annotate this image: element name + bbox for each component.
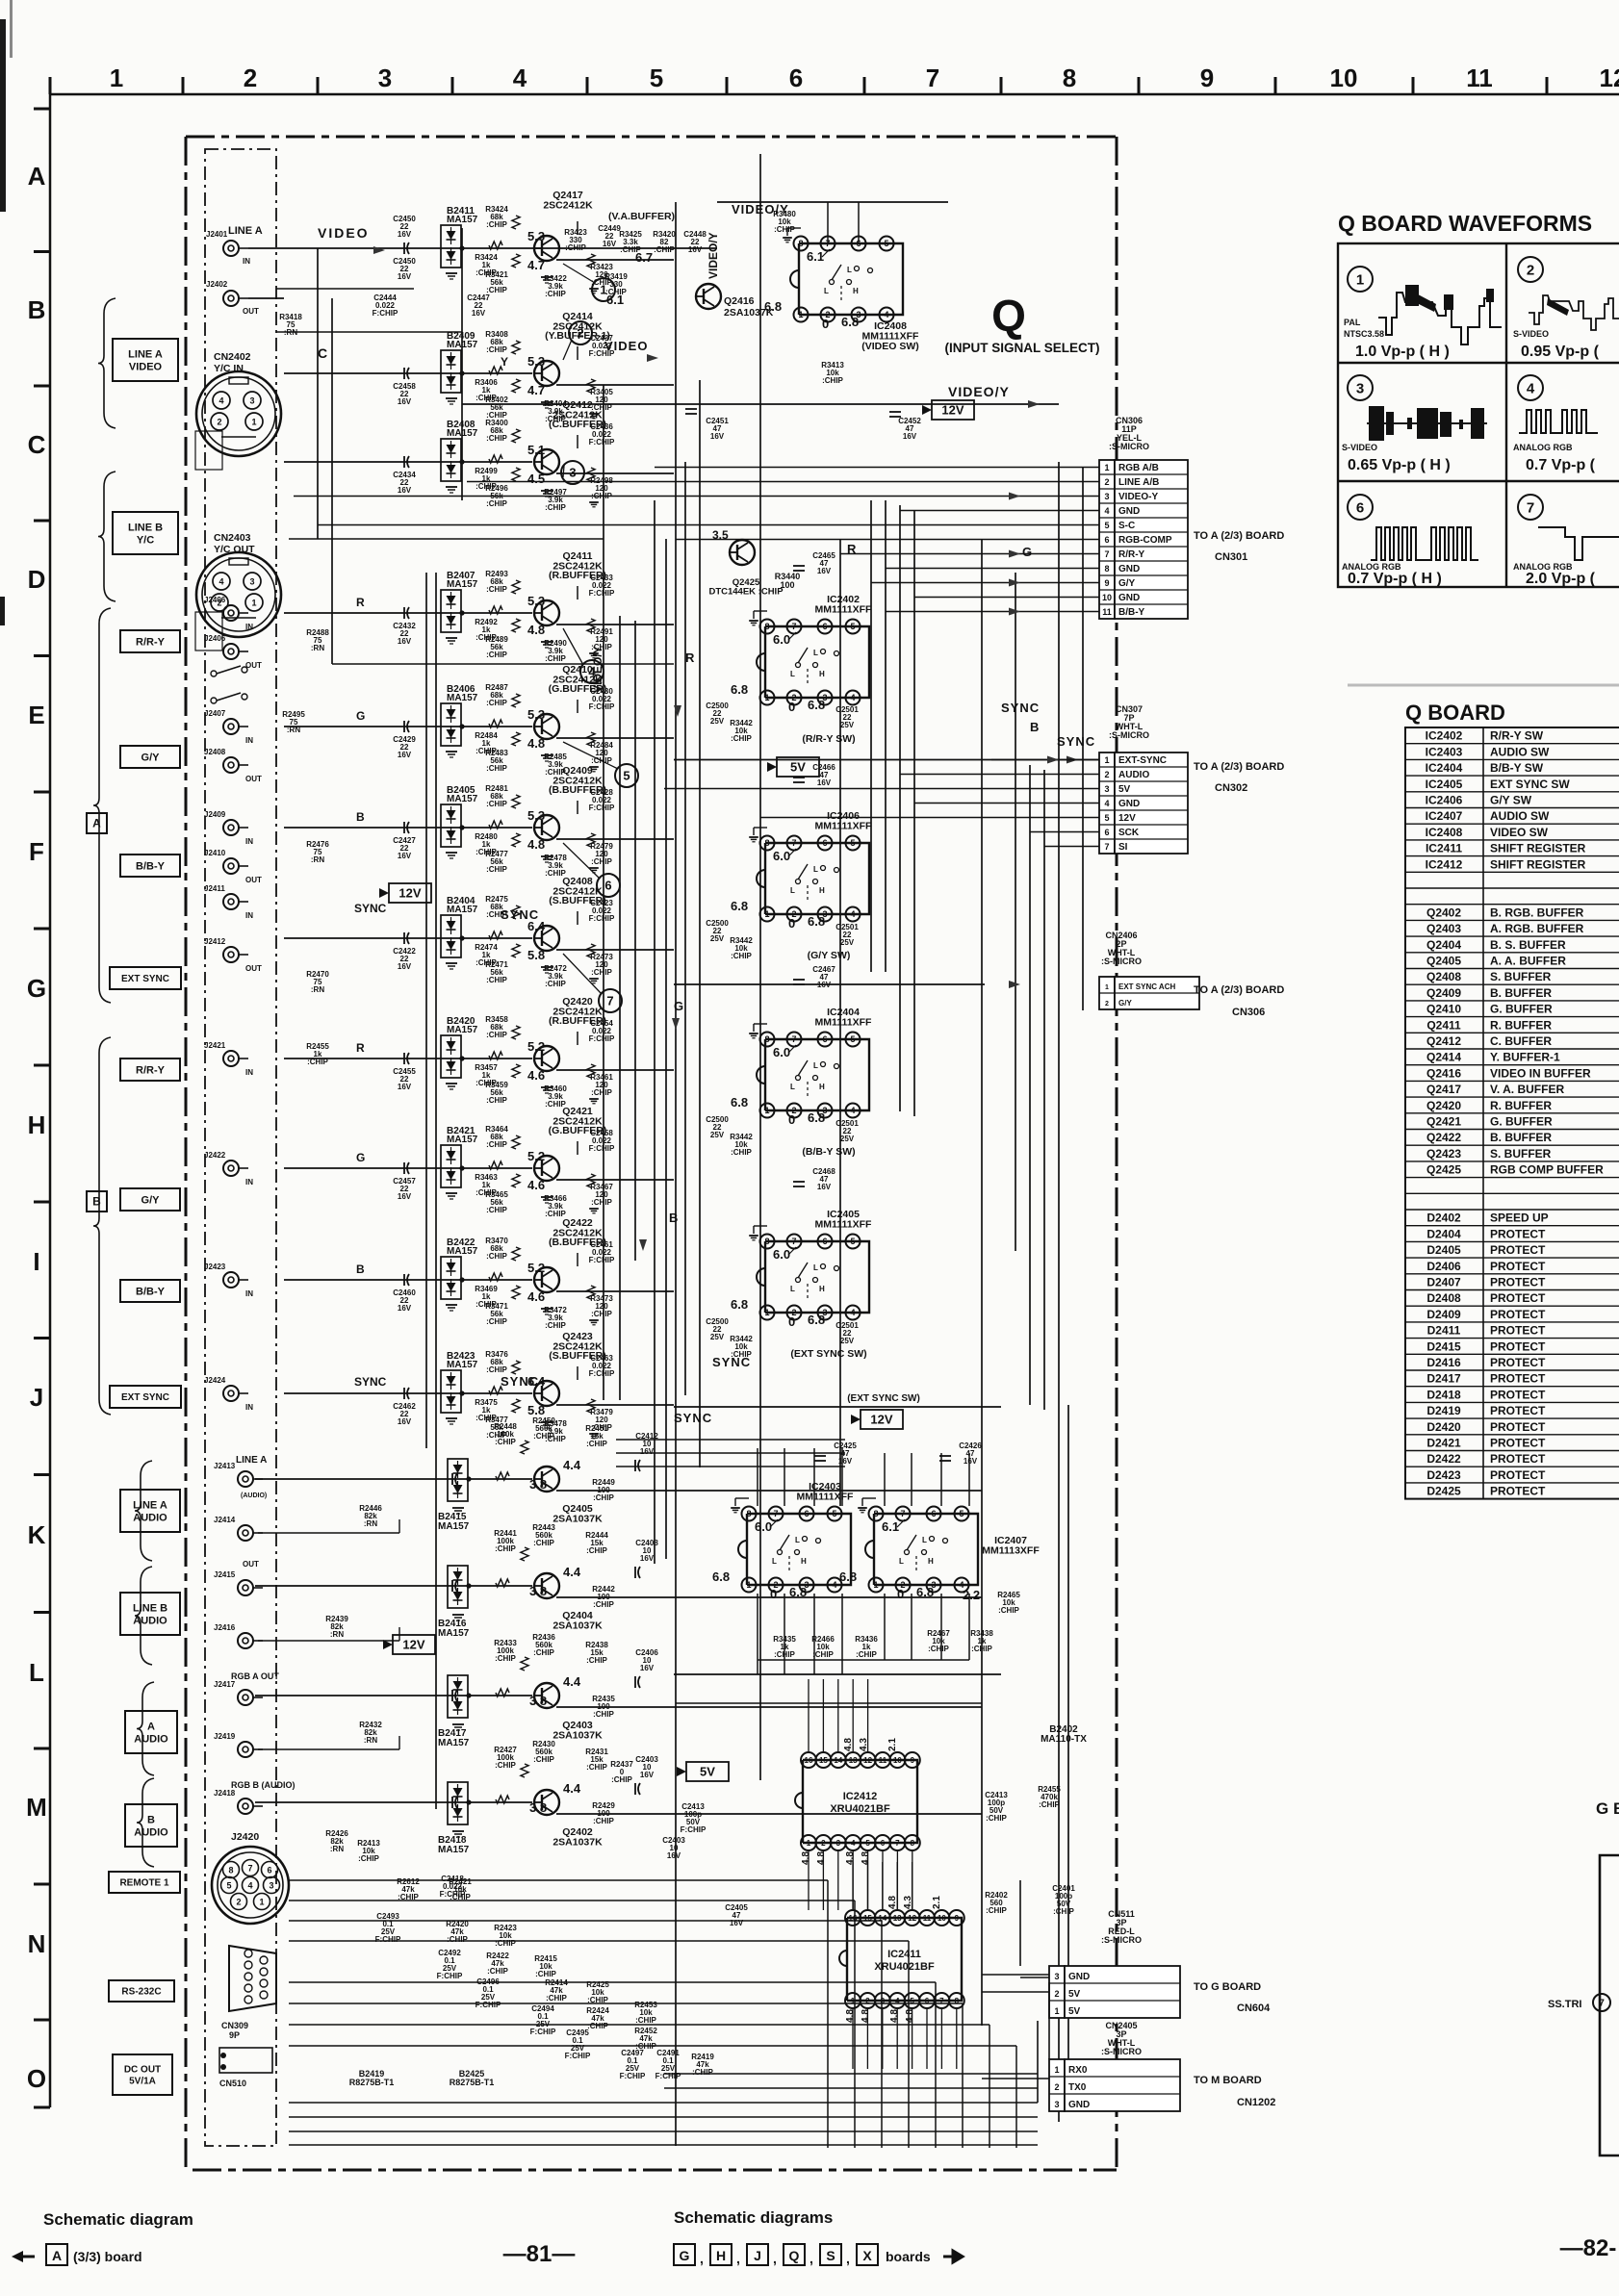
svg-text:GND: GND: [1118, 564, 1140, 574]
svg-text:VIDEO-Y: VIDEO-Y: [1118, 492, 1158, 502]
svg-text:8: 8: [1104, 564, 1109, 574]
svg-text:J2417: J2417: [214, 1680, 236, 1689]
svg-text:Q: Q: [789, 2248, 800, 2263]
svg-text:MA157: MA157: [447, 1025, 478, 1035]
svg-text:D2416: D2416: [1426, 1356, 1461, 1369]
svg-text:4.6: 4.6: [527, 1178, 545, 1192]
svg-text:7: 7: [791, 622, 796, 631]
svg-text:SYNC: SYNC: [354, 1375, 387, 1389]
svg-text:4: 4: [218, 396, 223, 406]
svg-text:CN301: CN301: [1215, 551, 1247, 563]
svg-text:25V: 25V: [840, 721, 855, 729]
svg-text:RX0: RX0: [1068, 2065, 1088, 2076]
svg-text:IC2403: IC2403: [1426, 745, 1463, 758]
svg-text:5.3: 5.3: [527, 229, 545, 243]
svg-text:MA157: MA157: [447, 579, 478, 590]
svg-text::CHIP: :CHIP: [545, 503, 566, 512]
svg-text:3.8: 3.8: [529, 1800, 547, 1815]
svg-text:A. RGB. BUFFER: A. RGB. BUFFER: [1490, 922, 1584, 935]
svg-text:2SA1037K: 2SA1037K: [553, 1620, 603, 1632]
svg-text:4.4: 4.4: [563, 1674, 581, 1689]
svg-text:B. RGB. BUFFER: B. RGB. BUFFER: [1490, 906, 1584, 919]
svg-text:,: ,: [809, 2251, 813, 2266]
svg-text:9: 9: [1104, 578, 1109, 588]
svg-text:NTSC3.58: NTSC3.58: [1344, 329, 1384, 339]
svg-text:4.3: 4.3: [903, 1896, 913, 1909]
svg-text:(3/3) board: (3/3) board: [73, 2249, 142, 2264]
svg-text:5: 5: [959, 1509, 964, 1518]
svg-text:5: 5: [884, 239, 888, 248]
svg-text:B/B-Y SW: B/B-Y SW: [1490, 761, 1544, 775]
svg-text:16V: 16V: [667, 1851, 681, 1860]
svg-text:R. BUFFER: R. BUFFER: [1490, 1018, 1552, 1032]
svg-text:J2406: J2406: [204, 634, 226, 643]
svg-text:IC2405: IC2405: [1426, 778, 1463, 791]
svg-text:L: L: [813, 1061, 818, 1070]
svg-text:—81—: —81—: [503, 2241, 576, 2267]
svg-text:OUT: OUT: [245, 775, 262, 783]
svg-text::CHIP: :CHIP: [986, 1906, 1007, 1915]
svg-text:F:CHIP: F:CHIP: [589, 1256, 615, 1264]
svg-text:A. A. BUFFER: A. A. BUFFER: [1490, 955, 1566, 968]
svg-text:G/Y: G/Y: [141, 752, 161, 763]
svg-text:SYNC: SYNC: [354, 902, 387, 915]
svg-text:MA157: MA157: [447, 905, 478, 915]
svg-text:8: 8: [1063, 64, 1076, 92]
svg-text::CHIP: :CHIP: [486, 499, 507, 508]
svg-text:D2402: D2402: [1426, 1212, 1461, 1225]
svg-text:16V: 16V: [398, 1417, 412, 1426]
svg-text:11: 11: [1466, 64, 1493, 92]
svg-text:CN1202: CN1202: [1237, 2097, 1275, 2108]
svg-text:R/R-Y: R/R-Y: [1118, 549, 1145, 560]
svg-text:MA157: MA157: [447, 693, 478, 703]
svg-text:5: 5: [1104, 521, 1109, 530]
svg-text::CHIP: :CHIP: [593, 1493, 614, 1502]
svg-text:2: 2: [1054, 1989, 1059, 1999]
svg-text:MA157: MA157: [447, 340, 478, 350]
svg-text::CHIP: :CHIP: [495, 1654, 516, 1663]
svg-text:(B/B-Y SW): (B/B-Y SW): [802, 1146, 855, 1158]
svg-text:(V.A.BUFFER): (V.A.BUFFER): [608, 211, 675, 222]
svg-text:OUT: OUT: [245, 876, 262, 884]
svg-text:B: B: [147, 1814, 155, 1825]
svg-text:R: R: [356, 596, 365, 609]
svg-text:7: 7: [895, 1839, 900, 1848]
svg-text:5V: 5V: [1068, 1989, 1081, 2000]
svg-text:D2420: D2420: [1426, 1420, 1461, 1434]
svg-text:B/B-Y: B/B-Y: [136, 860, 166, 872]
svg-text::CHIP: :CHIP: [774, 225, 795, 234]
svg-text:TO A (2/3) BOARD: TO A (2/3) BOARD: [1194, 761, 1284, 773]
svg-text:0: 0: [770, 1587, 777, 1601]
svg-text:1: 1: [110, 64, 123, 92]
svg-text:6.0: 6.0: [773, 632, 790, 647]
svg-text:6: 6: [789, 64, 803, 92]
svg-text:8: 8: [798, 239, 803, 248]
svg-text:5: 5: [623, 769, 630, 783]
svg-text:11: 11: [879, 1756, 887, 1765]
svg-text:16V: 16V: [398, 397, 412, 406]
svg-text:B: B: [356, 1263, 365, 1276]
svg-text:3: 3: [569, 466, 576, 480]
svg-text:6.0: 6.0: [773, 849, 790, 863]
svg-text:4.8: 4.8: [905, 2009, 915, 2023]
svg-text:2SA1037K: 2SA1037K: [553, 1514, 603, 1525]
svg-text:F:CHIP: F:CHIP: [475, 2001, 501, 2009]
svg-text:J2415: J2415: [214, 1570, 236, 1579]
svg-text:6.1: 6.1: [606, 293, 624, 307]
svg-text:S. BUFFER: S. BUFFER: [1490, 1147, 1552, 1161]
svg-text:Q2414: Q2414: [1426, 1051, 1461, 1064]
svg-text::CHIP: :CHIP: [486, 220, 507, 229]
svg-text:A: A: [28, 162, 46, 191]
svg-text:IN: IN: [245, 1403, 253, 1412]
svg-text:11: 11: [923, 1914, 932, 1923]
svg-text:D2425: D2425: [1426, 1485, 1461, 1498]
svg-text:2.1: 2.1: [887, 1738, 898, 1751]
svg-text:2: 2: [1104, 770, 1109, 779]
svg-text:G: G: [27, 974, 46, 1003]
svg-text:IN: IN: [245, 911, 253, 920]
svg-text:6.8: 6.8: [731, 1095, 748, 1110]
svg-text:LINE A: LINE A: [228, 225, 263, 237]
svg-text:SYNC: SYNC: [1001, 701, 1040, 715]
svg-text:G/Y: G/Y: [1118, 578, 1136, 589]
svg-text:7: 7: [791, 1034, 796, 1044]
svg-text:3: 3: [836, 1839, 841, 1848]
svg-text:B: B: [28, 295, 46, 324]
svg-text:VIDEO: VIDEO: [318, 225, 370, 241]
svg-text:1: 1: [746, 1580, 751, 1590]
svg-text:F:CHIP: F:CHIP: [589, 438, 615, 446]
svg-text::CHIP: :CHIP: [486, 1096, 507, 1105]
svg-text::CHIP: :CHIP: [486, 764, 507, 773]
svg-text:6.8: 6.8: [841, 315, 859, 329]
svg-text:J2412: J2412: [204, 937, 226, 946]
svg-text:MM1111XFF: MM1111XFF: [815, 1219, 873, 1231]
svg-text:L: L: [790, 670, 795, 678]
svg-text:1: 1: [1105, 984, 1109, 991]
svg-text:0: 0: [897, 1587, 904, 1601]
svg-text:H: H: [716, 2248, 726, 2263]
svg-text:VIDEO SW: VIDEO SW: [1490, 826, 1549, 839]
svg-text:1: 1: [251, 599, 256, 608]
svg-text:6: 6: [822, 838, 827, 848]
svg-text:25V: 25V: [840, 1135, 855, 1143]
svg-text:2: 2: [1104, 477, 1109, 487]
svg-text:CN2402: CN2402: [214, 351, 251, 363]
svg-text:G: G: [1022, 545, 1032, 559]
svg-text:5V/1A: 5V/1A: [129, 2077, 156, 2087]
svg-text:6.1: 6.1: [882, 1519, 899, 1534]
svg-text::CHIP: :CHIP: [986, 1814, 1007, 1823]
svg-text:2: 2: [1527, 262, 1534, 278]
svg-text:Y/C: Y/C: [137, 534, 154, 546]
svg-text:D2405: D2405: [1426, 1243, 1461, 1257]
svg-text:4: 4: [884, 310, 888, 319]
svg-text:E: E: [28, 701, 44, 729]
svg-text:J2419: J2419: [214, 1732, 236, 1741]
svg-text:D2415: D2415: [1426, 1339, 1461, 1353]
svg-text:4.6: 4.6: [527, 1068, 545, 1083]
svg-text:C. BUFFER: C. BUFFER: [1490, 1034, 1552, 1048]
svg-text:5.8: 5.8: [527, 1403, 545, 1417]
svg-text:0: 0: [788, 1314, 795, 1329]
svg-text:J2418: J2418: [214, 1789, 236, 1798]
svg-text:7: 7: [791, 838, 796, 848]
svg-text:5: 5: [850, 622, 855, 631]
svg-text:4.8: 4.8: [801, 1851, 811, 1865]
svg-text:6.0: 6.0: [755, 1519, 772, 1534]
svg-text:B: B: [1030, 720, 1039, 734]
svg-text:4: 4: [218, 577, 223, 587]
svg-text:L: L: [29, 1658, 44, 1687]
svg-text:L: L: [790, 1083, 795, 1091]
svg-text:F:CHIP: F:CHIP: [589, 1034, 615, 1043]
svg-text:14: 14: [834, 1756, 842, 1765]
svg-text:MA157: MA157: [447, 215, 478, 225]
svg-text:16V: 16V: [398, 1083, 412, 1091]
svg-text:J2402: J2402: [206, 280, 228, 289]
svg-text:H: H: [819, 1285, 825, 1293]
svg-text:J2407: J2407: [204, 709, 226, 718]
svg-text:6.7: 6.7: [635, 250, 653, 265]
svg-text::CHIP: :CHIP: [586, 1656, 607, 1665]
svg-text::CHIP: :CHIP: [565, 243, 586, 252]
svg-text:PROTECT: PROTECT: [1490, 1276, 1546, 1289]
svg-text:D: D: [28, 565, 46, 594]
svg-text:2SA1037K: 2SA1037K: [724, 307, 774, 319]
svg-text:6: 6: [604, 879, 611, 893]
svg-text:B/B-Y: B/B-Y: [1118, 607, 1145, 618]
svg-text:OUT: OUT: [243, 307, 259, 316]
svg-text:L: L: [790, 886, 795, 895]
svg-text::CHIP: :CHIP: [533, 1432, 554, 1441]
svg-text::RN: :RN: [330, 1845, 344, 1853]
svg-text:16: 16: [805, 1756, 813, 1765]
svg-text:VIDEO: VIDEO: [604, 339, 648, 353]
svg-text:7: 7: [791, 1237, 796, 1246]
svg-text:O: O: [27, 2064, 46, 2093]
svg-text:(R.BUFFER): (R.BUFFER): [549, 570, 606, 581]
svg-text:1: 1: [1104, 463, 1109, 472]
svg-text:G/Y: G/Y: [141, 1194, 161, 1206]
svg-text:8: 8: [764, 1034, 769, 1044]
svg-text:6.8: 6.8: [808, 698, 825, 712]
svg-text:K: K: [28, 1520, 46, 1549]
svg-text:S-VIDEO: S-VIDEO: [1513, 329, 1549, 339]
svg-text:TO A (2/3) BOARD: TO A (2/3) BOARD: [1194, 530, 1284, 542]
svg-text::CHIP: :CHIP: [486, 1206, 507, 1214]
svg-text:PROTECT: PROTECT: [1490, 1339, 1546, 1353]
svg-text:F:CHIP: F:CHIP: [373, 309, 398, 318]
svg-text::RN: :RN: [311, 644, 324, 652]
svg-text:12: 12: [1600, 64, 1619, 92]
svg-text:VIDEO/Y: VIDEO/Y: [591, 646, 604, 693]
svg-text::CHIP: :CHIP: [486, 800, 507, 808]
svg-text:D2404: D2404: [1426, 1227, 1461, 1240]
svg-text:G. BUFFER: G. BUFFER: [1490, 1003, 1553, 1016]
svg-text:0.7 Vp-p (: 0.7 Vp-p (: [1526, 457, 1596, 473]
svg-text:0: 0: [788, 916, 795, 931]
svg-text:100: 100: [780, 580, 794, 590]
svg-text:H: H: [28, 1110, 46, 1139]
svg-text::CHIP: :CHIP: [971, 1645, 992, 1653]
svg-text:B. S. BUFFER: B. S. BUFFER: [1490, 938, 1566, 952]
svg-text:PROTECT: PROTECT: [1490, 1243, 1546, 1257]
svg-text:S. BUFFER: S. BUFFER: [1490, 970, 1552, 983]
svg-text:8: 8: [911, 1839, 915, 1848]
svg-text:D2418: D2418: [1426, 1388, 1461, 1401]
svg-text:J2408: J2408: [204, 748, 226, 756]
svg-text:Q2404: Q2404: [1426, 938, 1461, 952]
svg-text::CHIP: :CHIP: [587, 1996, 608, 2004]
svg-text:5: 5: [650, 64, 663, 92]
svg-text:16V: 16V: [603, 240, 617, 248]
svg-text:3: 3: [1104, 492, 1109, 501]
svg-text:Q2425: Q2425: [1426, 1163, 1461, 1177]
svg-text:MA157: MA157: [438, 1628, 470, 1639]
svg-text:4.8: 4.8: [887, 1896, 898, 1909]
svg-text:16V: 16V: [838, 1457, 853, 1466]
svg-text:16V: 16V: [398, 230, 412, 239]
svg-text:D2409: D2409: [1426, 1308, 1461, 1321]
svg-text:7: 7: [606, 994, 613, 1008]
svg-text:J2410: J2410: [204, 849, 226, 857]
svg-text:2.1: 2.1: [932, 1896, 942, 1909]
svg-text:4: 4: [1527, 380, 1535, 396]
svg-text:VIDEO/Y: VIDEO/Y: [948, 384, 1010, 399]
svg-text:16V: 16V: [398, 751, 412, 759]
svg-text:MA110-TX: MA110-TX: [1041, 1734, 1087, 1745]
svg-text:3: 3: [1104, 784, 1109, 794]
svg-text:16V: 16V: [398, 272, 412, 281]
svg-text:J2401: J2401: [206, 230, 228, 239]
svg-text:,: ,: [773, 2251, 777, 2266]
svg-text::CHIP: :CHIP: [533, 1755, 554, 1764]
svg-text:25V: 25V: [710, 934, 725, 943]
svg-text::S-MICRO: :S-MICRO: [1101, 1935, 1142, 1945]
svg-text:G. BUFFER: G. BUFFER: [1490, 1115, 1553, 1129]
svg-text:(INPUT SIGNAL SELECT): (INPUT SIGNAL SELECT): [944, 341, 1099, 355]
svg-text:IN: IN: [245, 837, 253, 846]
svg-text:13: 13: [893, 1914, 902, 1923]
svg-text:(B.BUFFER): (B.BUFFER): [549, 784, 606, 796]
svg-text:TO M BOARD: TO M BOARD: [1194, 2075, 1262, 2086]
svg-text:F:CHIP: F:CHIP: [589, 1369, 615, 1378]
svg-text:MM1111XFF: MM1111XFF: [815, 1017, 873, 1029]
svg-text:1: 1: [764, 693, 769, 702]
svg-text:3.8: 3.8: [529, 1477, 547, 1492]
svg-text:L: L: [824, 287, 829, 295]
svg-text:B. BUFFER: B. BUFFER: [1490, 986, 1552, 1000]
svg-text:G: G: [680, 2248, 690, 2263]
svg-text:3: 3: [1054, 2100, 1059, 2109]
svg-text:CN510: CN510: [219, 2079, 246, 2088]
svg-text:R/R-Y: R/R-Y: [136, 1064, 166, 1076]
svg-text:PROTECT: PROTECT: [1490, 1485, 1546, 1498]
svg-text:(B.BUFFER): (B.BUFFER): [549, 1237, 606, 1248]
svg-text:Q2408: Q2408: [1426, 970, 1461, 983]
svg-text:F:CHIP: F:CHIP: [655, 2072, 681, 2080]
svg-text:R: R: [847, 542, 857, 556]
svg-text:5V: 5V: [1118, 784, 1131, 795]
svg-text:IC2411: IC2411: [887, 1949, 921, 1960]
svg-text:6.8: 6.8: [839, 1569, 857, 1584]
svg-text:F:CHIP: F:CHIP: [530, 2028, 556, 2036]
svg-text:PROTECT: PROTECT: [1490, 1468, 1546, 1482]
svg-text:Q2411: Q2411: [1426, 1018, 1461, 1032]
svg-text:PROTECT: PROTECT: [1490, 1388, 1546, 1401]
svg-text:(S.BUFFER): (S.BUFFER): [549, 895, 606, 906]
svg-text:5: 5: [1104, 813, 1109, 823]
svg-text:6: 6: [1104, 535, 1109, 545]
svg-text:7: 7: [1527, 499, 1534, 516]
svg-text:L: L: [899, 1557, 904, 1566]
svg-text:S-C: S-C: [1118, 521, 1135, 531]
svg-text:PROTECT: PROTECT: [1490, 1291, 1546, 1305]
svg-text::CHIP: :CHIP: [611, 1775, 632, 1784]
svg-text:16V: 16V: [640, 1664, 655, 1672]
svg-text::CHIP: :CHIP: [998, 1606, 1019, 1615]
svg-text:16V: 16V: [640, 1447, 655, 1456]
svg-text:4.8: 4.8: [845, 1851, 856, 1865]
svg-text:(R/R-Y SW): (R/R-Y SW): [802, 733, 855, 745]
svg-text:J2409: J2409: [204, 810, 226, 819]
svg-text:2: 2: [1105, 1001, 1109, 1008]
svg-text:EXT-SYNC: EXT-SYNC: [1118, 755, 1167, 766]
svg-text:5.2: 5.2: [527, 1149, 545, 1163]
svg-text::CHIP: :CHIP: [495, 1544, 516, 1553]
svg-text:MA157: MA157: [447, 1246, 478, 1257]
svg-text:LINE A: LINE A: [128, 348, 163, 360]
svg-text:25V: 25V: [710, 717, 725, 726]
svg-text:EXT SYNC: EXT SYNC: [121, 1392, 169, 1403]
svg-text::CHIP: :CHIP: [545, 1321, 566, 1330]
svg-text:25V: 25V: [840, 938, 855, 947]
svg-text::CHIP: :CHIP: [486, 699, 507, 707]
svg-text:L: L: [790, 1285, 795, 1293]
svg-text:4.8: 4.8: [527, 623, 545, 637]
svg-text:Q BOARD: Q BOARD: [1405, 701, 1505, 725]
svg-text::CHIP: :CHIP: [586, 1763, 607, 1772]
svg-text:H: H: [853, 287, 859, 295]
svg-text:IC2412: IC2412: [1426, 857, 1463, 871]
svg-text:IC2408: IC2408: [1426, 826, 1463, 839]
svg-text:X: X: [862, 2248, 872, 2263]
svg-text::RN: :RN: [330, 1630, 344, 1639]
svg-text:VIDEO IN BUFFER: VIDEO IN BUFFER: [1490, 1066, 1591, 1080]
svg-text:ANALOG RGB: ANALOG RGB: [1513, 443, 1573, 452]
svg-text:25V: 25V: [710, 1131, 725, 1139]
svg-text:1: 1: [1356, 271, 1364, 288]
svg-text:9: 9: [911, 1756, 915, 1765]
svg-text:2: 2: [821, 1839, 826, 1848]
svg-text:RGB A/B: RGB A/B: [1118, 463, 1159, 473]
svg-text:,: ,: [736, 2251, 740, 2266]
svg-text:G: G: [356, 709, 365, 723]
svg-text:G: G: [356, 1151, 365, 1164]
svg-text:2: 2: [1054, 2082, 1059, 2092]
svg-text::S-MICRO: :S-MICRO: [1109, 730, 1149, 740]
svg-text:PROTECT: PROTECT: [1490, 1308, 1546, 1321]
svg-text:1: 1: [764, 1308, 769, 1317]
svg-text:4: 4: [513, 64, 527, 92]
svg-text:IN: IN: [245, 623, 253, 631]
svg-text:4: 4: [850, 909, 855, 919]
svg-text:AUDIO: AUDIO: [134, 1733, 168, 1745]
